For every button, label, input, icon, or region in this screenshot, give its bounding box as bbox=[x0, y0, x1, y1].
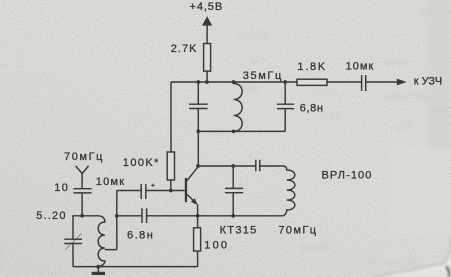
svg-text:100: 100 bbox=[204, 239, 229, 251]
svg-text:2.7K: 2.7K bbox=[171, 43, 198, 55]
svg-text:НР ТЦЕУ 4ВЦ: НР ТЦЕУ 4ВЦ bbox=[368, 258, 421, 267]
svg-text:5..20: 5..20 bbox=[36, 210, 66, 222]
svg-text:эвч: эвч bbox=[250, 56, 264, 66]
svg-text:6.8н: 6.8н bbox=[127, 230, 154, 242]
svg-text:КТ315: КТ315 bbox=[220, 225, 258, 237]
svg-text:35мГц: 35мГц bbox=[243, 70, 283, 82]
svg-text:закат: закат bbox=[385, 58, 407, 68]
svg-text:10мк: 10мк bbox=[346, 61, 375, 73]
svg-text:ВРЛ-100: ВРЛ-100 bbox=[322, 170, 373, 182]
svg-text:х 50: х 50 bbox=[322, 110, 339, 120]
svg-text:к УЗЧ: к УЗЧ bbox=[414, 75, 442, 87]
svg-text:нач 20: нач 20 bbox=[300, 242, 327, 252]
svg-text:10: 10 bbox=[54, 182, 69, 194]
svg-text:100K*: 100K* bbox=[123, 157, 160, 169]
svg-text:АЧ: АЧ bbox=[420, 6, 431, 16]
svg-text:320 мл: 320 мл bbox=[310, 88, 339, 98]
svg-text:ватч: ватч bbox=[430, 104, 449, 114]
svg-text:6,8н: 6,8н bbox=[300, 103, 324, 115]
svg-text:+4,5В: +4,5В bbox=[190, 1, 224, 13]
svg-text:1.8K: 1.8K bbox=[297, 61, 326, 73]
svg-text:70мГц: 70мГц bbox=[64, 151, 104, 163]
svg-text:х 50: х 50 bbox=[396, 122, 413, 132]
svg-text:т м: т м bbox=[180, 117, 193, 127]
svg-text:70мГц: 70мГц bbox=[278, 225, 317, 237]
svg-text:10мк: 10мк bbox=[96, 176, 125, 188]
svg-text:ЗАТИЛ 500: ЗАТИЛ 500 bbox=[384, 92, 430, 102]
svg-text:ЗЕП 80: ЗЕП 80 bbox=[238, 32, 268, 42]
